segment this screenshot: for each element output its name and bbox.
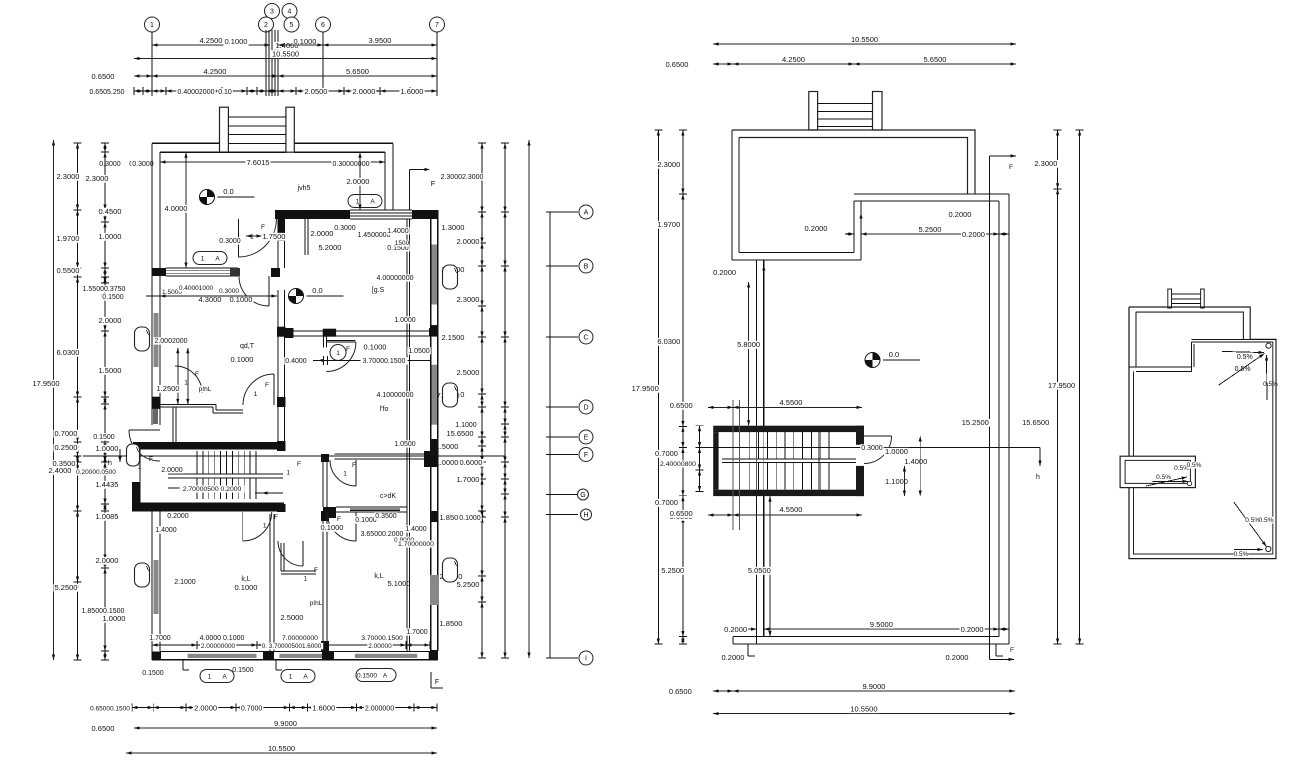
small wall bath: [172, 407, 174, 442]
skylight slope arrows: [1152, 480, 1188, 482]
svg-text:10.5500: 10.5500: [268, 744, 295, 753]
svg-text:2.3000: 2.3000: [86, 174, 109, 183]
svg-text:17.9500: 17.9500: [632, 384, 659, 393]
svg-text:7.6015: 7.6015: [247, 158, 270, 167]
svg-text:1.70000000: 1.70000000: [398, 541, 434, 548]
door k,L left room: [243, 512, 272, 541]
svg-text:1: 1: [343, 470, 347, 477]
room divider x=323 y 511-651: [322, 511, 324, 651]
stair block: [133, 442, 283, 450]
right dim chain 3 (17.9500): [528, 140, 530, 658]
svg-text:4.2500: 4.2500: [782, 55, 805, 64]
svg-text:10.5500: 10.5500: [850, 704, 877, 713]
kitchen wall y=507: [323, 507, 336, 518]
svg-text:0.6505.250: 0.6505.250: [89, 89, 124, 96]
bottom wall: [733, 643, 1009, 645]
svg-text:6.0300: 6.0300: [657, 337, 680, 346]
grid bubble 4: [282, 4, 297, 19]
stair box middle plan: [713, 426, 864, 432]
right dim chain 2: [504, 143, 506, 658]
svg-text:0.3000: 0.3000: [219, 288, 239, 295]
outer walls middle plan: [732, 130, 975, 194]
middle bottom dim 10.5500: [713, 713, 1015, 715]
svg-text:6.0300: 6.0300: [57, 348, 80, 357]
svg-text:5.8000: 5.8000: [737, 340, 760, 349]
svg-text:2.0500: 2.0500: [305, 87, 328, 96]
svg-text:0.1000: 0.1000: [225, 37, 248, 46]
svg-text:0.2500: 0.2500: [55, 443, 78, 452]
svg-text:1.2500: 1.2500: [157, 384, 180, 393]
svg-text:0.6500: 0.6500: [669, 687, 692, 696]
svg-text:0.2000: 0.2000: [961, 625, 984, 634]
svg-text:2.0000: 2.0000: [347, 177, 370, 186]
svg-text:2.3000: 2.3000: [1034, 159, 1057, 168]
svg-text:1.6000: 1.6000: [401, 87, 424, 96]
svg-text:3.70000.1500: 3.70000.1500: [363, 358, 406, 365]
section line F middle bottom: [989, 658, 1014, 660]
svg-text:0.1500: 0.1500: [142, 670, 164, 677]
svg-text:9.9000: 9.9000: [274, 719, 297, 728]
grid bubble 1: [145, 17, 160, 32]
svg-text:1.4000: 1.4000: [904, 457, 927, 466]
step wall left: [853, 201, 855, 253]
svg-text:5.2500: 5.2500: [661, 566, 684, 575]
svg-text:0.6000: 0.6000: [460, 458, 483, 467]
grid bubble A: [579, 205, 593, 219]
bottom dim row ticks: [132, 707, 437, 709]
svg-text:0.5%: 0.5%: [1259, 517, 1274, 524]
svg-text:A: A: [215, 256, 220, 263]
svg-text:0.4000: 0.4000: [285, 358, 307, 365]
svg-text:2.70000500 0.2000: 2.70000500 0.2000: [183, 486, 242, 493]
svg-text:F: F: [431, 179, 436, 188]
svg-text:1.7000: 1.7000: [406, 629, 428, 636]
svg-text:l'fo: l'fo: [380, 406, 389, 413]
circle k,L left: [264, 524, 266, 526]
svg-text:5.2500: 5.2500: [55, 583, 78, 592]
svg-text:2.1500: 2.1500: [442, 333, 465, 342]
svg-text:pIhL: pIhL: [199, 386, 212, 393]
wall y=331 right part: [285, 330, 431, 332]
svg-text:7.00000000: 7.00000000: [282, 635, 318, 642]
svg-text:1.55000.3750: 1.55000.3750: [83, 286, 126, 293]
svg-text:1.9700: 1.9700: [657, 220, 680, 229]
grid bubble I: [579, 651, 593, 665]
svg-text:F: F: [1009, 164, 1013, 171]
svg-text:0.1000: 0.1000: [321, 523, 344, 532]
middle left chains: [657, 130, 659, 644]
svg-text:9.9000: 9.9000: [862, 682, 885, 691]
roof slope arrow 3 (vertical right): [1266, 355, 1269, 400]
svg-text:jvh5: jvh5: [297, 185, 311, 192]
svg-text:G: G: [580, 492, 585, 499]
svg-text:F: F: [149, 456, 153, 463]
section line F middle top: [988, 156, 990, 660]
interior dim labels left plan: [163, 205, 188, 213]
left wall window hatch: [154, 313, 159, 367]
svg-text:B: B: [584, 264, 589, 271]
svg-text:1.0500: 1.0500: [394, 441, 416, 448]
bottom wall window strips: [188, 654, 257, 658]
pill fixtures right wall: [443, 265, 458, 289]
grid line 6: [322, 32, 324, 96]
svg-text:0.3000: 0.3000: [334, 225, 356, 232]
svg-text:0.30000000: 0.30000000: [333, 161, 370, 168]
svg-text:1: 1: [150, 22, 154, 29]
roof main top wall double: [1192, 338, 1277, 340]
dim lines inside qd,T: [177, 348, 179, 405]
svg-text:2.0000: 2.0000: [457, 237, 480, 246]
wall extension lines through stair: [732, 400, 734, 530]
svg-text:0.3000: 0.3000: [219, 238, 241, 245]
svg-text:0.6500: 0.6500: [92, 724, 115, 733]
svg-text:E: E: [584, 435, 589, 442]
svg-text:2.40000800: 2.40000800: [660, 461, 696, 468]
svg-text:c>dK: c>dK: [380, 493, 396, 500]
svg-text:10.5500: 10.5500: [272, 49, 299, 58]
svg-text:C: C: [583, 335, 588, 342]
grid bubble 7: [430, 17, 445, 32]
svg-text:pIhL: pIhL: [310, 600, 323, 607]
svg-text:2.3000: 2.3000: [457, 295, 480, 304]
svg-text:5.6500: 5.6500: [924, 55, 947, 64]
stair door middle: [864, 436, 892, 464]
ladder right plan: [1168, 289, 1172, 308]
circle 1 hall door: [251, 235, 253, 237]
grid bubble 2: [259, 17, 274, 32]
circle toilet: [304, 577, 306, 579]
grid bubble C: [579, 330, 593, 344]
svg-text:1.0000: 1.0000: [394, 317, 416, 324]
svg-text:3.700005001.6000: 3.700005001.6000: [269, 643, 322, 650]
inner mini chain stair heights: [699, 426, 701, 492]
svg-text:5.2500: 5.2500: [457, 580, 480, 589]
svg-text:2.5000: 2.5000: [457, 368, 480, 377]
left outer wall: [151, 143, 153, 425]
svg-text:1.1000: 1.1000: [455, 422, 477, 429]
top dim row 2 : 10.5500: [134, 58, 437, 60]
roof upper block bottom wall: [1129, 366, 1192, 368]
circle k,L right: [327, 527, 329, 529]
svg-text:F: F: [274, 514, 278, 521]
svg-text:F: F: [195, 371, 199, 378]
door qd,T top: [239, 276, 269, 306]
grid line 7: [436, 32, 438, 96]
g.S door leaf: [304, 219, 306, 255]
svg-text:4.0000: 4.0000: [165, 204, 188, 213]
svg-text:2.0000: 2.0000: [311, 229, 334, 238]
svg-text:0.0: 0.0: [889, 350, 899, 359]
svg-text:F: F: [265, 382, 269, 389]
svg-text:F: F: [584, 452, 588, 459]
svg-text:5.0500: 5.0500: [748, 566, 771, 575]
grid bubble B: [579, 259, 593, 273]
top wall inner line: [160, 151, 286, 153]
svg-text:0.5500: 0.5500: [57, 266, 80, 275]
svg-text:0.7000: 0.7000: [655, 498, 678, 507]
svg-text:0.6500: 0.6500: [670, 401, 693, 410]
roof slope arrow 2 (diagonal): [1219, 354, 1265, 386]
svg-text:2.5000: 2.5000: [281, 613, 304, 622]
svg-text:0.3000: 0.3000: [99, 161, 121, 168]
svg-text:H: H: [583, 512, 588, 519]
kitchen wall y=454 right: [335, 453, 431, 455]
svg-text:15.6500: 15.6500: [1022, 418, 1049, 427]
left wall lower: [756, 260, 758, 426]
middle plan dim labels: [947, 211, 972, 219]
svg-text:0.3500: 0.3500: [375, 513, 397, 520]
circle stair hall door: [287, 471, 289, 473]
svg-text:1.7000: 1.7000: [457, 475, 480, 484]
svg-text:0.3000: 0.3000: [132, 161, 154, 168]
svg-text:4.2500: 4.2500: [200, 36, 223, 45]
svg-text:2.0002000: 2.0002000: [154, 338, 187, 345]
circle 1 l-fo: [330, 345, 346, 361]
grid bubble 5: [284, 17, 299, 32]
door qd,T bottom (hall side): [243, 374, 274, 405]
right wall: [1008, 194, 1010, 644]
svg-text:0.2000: 0.2000: [946, 653, 969, 662]
svg-text:1.0000: 1.0000: [96, 444, 119, 453]
l-fo door arc: [326, 342, 356, 372]
svg-text:0.2000: 0.2000: [167, 513, 189, 520]
svg-text:2: 2: [264, 22, 268, 29]
svg-text:3: 3: [270, 9, 274, 16]
svg-text:A: A: [303, 674, 308, 681]
right upper wall: [384, 152, 386, 210]
svg-text:0.10: 0.10: [218, 89, 232, 96]
svg-text:0.1500: 0.1500: [93, 434, 115, 441]
svg-text:k,L: k,L: [241, 576, 250, 583]
stair labels: [160, 466, 184, 473]
svg-text:F: F: [297, 461, 301, 468]
central vertical wall x=278: [278, 219, 286, 241]
svg-text:0.5%: 0.5%: [1237, 354, 1253, 361]
svg-text:5.6500: 5.6500: [346, 67, 369, 76]
svg-text:1: 1: [336, 350, 340, 357]
svg-text:0.1000: 0.1000: [459, 515, 481, 522]
svg-text:5.2000: 5.2000: [319, 243, 342, 252]
l-fo door leaf: [326, 339, 355, 341]
svg-text:2.3000: 2.3000: [657, 160, 680, 169]
toilet plhL walls: [280, 543, 282, 571]
svg-text:1.0500: 1.0500: [408, 348, 430, 355]
svg-text:2.0000: 2.0000: [194, 704, 217, 713]
svg-text:2.0000: 2.0000: [99, 316, 122, 325]
svg-text:2.0000: 2.0000: [353, 87, 376, 96]
svg-text:15.2500: 15.2500: [962, 418, 989, 427]
roof notch vertical: [1191, 342, 1193, 372]
svg-text:h: h: [108, 460, 112, 467]
svg-text:1.5000: 1.5000: [99, 366, 122, 375]
5.0500 vertical dim: [769, 496, 771, 636]
svg-text:3.9500: 3.9500: [369, 36, 392, 45]
svg-text:F: F: [261, 224, 265, 231]
svg-text:1.8500: 1.8500: [440, 619, 463, 628]
svg-text:0.2000: 0.2000: [724, 625, 747, 634]
roof outline inner upper-left block: [1136, 312, 1244, 339]
svg-text:0.40002000: 0.40002000: [178, 89, 215, 96]
door + frame at qd,T top: [271, 268, 280, 277]
svg-text:4.5500: 4.5500: [780, 398, 803, 407]
svg-text:[g.S: [g.S: [372, 287, 385, 294]
pill fixtures left wall: [135, 327, 150, 351]
wide ext top wall: [854, 193, 1009, 195]
svg-text:F: F: [337, 516, 341, 523]
top dim 10.5500: [713, 43, 1016, 45]
grid bubble H: [581, 509, 592, 520]
svg-text:2.0000: 2.0000: [96, 556, 119, 565]
hall entry door: [238, 219, 276, 257]
wall x=272 y 511-651: [269, 514, 271, 651]
stair treads: [196, 451, 198, 474]
svg-text:1: 1: [208, 674, 212, 681]
svg-text:7: 7: [435, 22, 439, 29]
svg-text:0.6500: 0.6500: [670, 509, 693, 518]
stadium 1 A left: [193, 252, 227, 265]
svg-text:I: I: [585, 656, 587, 663]
kitchen wall x=323 top: [322, 462, 324, 507]
svg-text:0.2000: 0.2000: [805, 224, 828, 233]
roof slope arrow 1 (top horiz): [1222, 351, 1264, 352]
svg-text:5: 5: [290, 22, 294, 29]
svg-text:1500: 1500: [395, 240, 410, 247]
right dim chain 1: [481, 143, 483, 658]
svg-text:1: 1: [254, 391, 258, 398]
roof drain circle top right: [1266, 343, 1271, 348]
svg-text:0.65000.1500: 0.65000.1500: [90, 706, 130, 713]
bottom dim row 10.5500: [126, 752, 437, 754]
svg-text:0.1000: 0.1000: [231, 355, 254, 364]
svg-text:15.6500: 15.6500: [446, 429, 473, 438]
svg-text:1: 1: [356, 199, 360, 206]
svg-text:0.6500: 0.6500: [666, 60, 689, 69]
svg-text:1.0000: 1.0000: [99, 232, 122, 241]
svg-text:0.20000.0500: 0.20000.0500: [76, 469, 116, 476]
grid line 1: [151, 32, 153, 96]
svg-text:1: 1: [263, 522, 267, 529]
svg-text:k,L: k,L: [374, 573, 383, 580]
svg-text:0.0: 0.0: [312, 286, 322, 295]
svg-text:0.5%: 0.5%: [1235, 366, 1251, 373]
section line h middle: [700, 447, 1040, 449]
grid bubble D: [579, 400, 593, 414]
svg-text:0.1500: 0.1500: [357, 673, 377, 680]
wide part right wall: [430, 210, 432, 660]
svg-text:0.7000: 0.7000: [241, 706, 263, 713]
svg-text:1.4500000: 1.4500000: [357, 232, 390, 239]
svg-text:1: 1: [201, 256, 205, 263]
door k,L right room: [327, 512, 356, 541]
svg-text:3.70000.1500: 3.70000.1500: [361, 635, 403, 642]
svg-text:1.9700: 1.9700: [57, 234, 80, 243]
svg-text:F: F: [435, 679, 439, 686]
grid bubble F: [579, 448, 593, 462]
svg-text:1.6000: 1.6000: [312, 704, 335, 713]
grid lines 2-5 cluster: [265, 30, 267, 96]
circle balcony: [139, 466, 141, 468]
interior wall line x=407: [406, 219, 408, 651]
svg-text:17.9500: 17.9500: [1048, 381, 1075, 390]
svg-text:0.5%: 0.5%: [1187, 462, 1202, 469]
svg-text:F: F: [352, 462, 356, 469]
stair treads middle: [749, 432, 751, 459]
svg-text:1.3000: 1.3000: [442, 223, 465, 232]
svg-text:5.1000: 5.1000: [388, 579, 411, 588]
svg-text:F: F: [314, 567, 318, 574]
bottom interior dim row y=639: [148, 634, 172, 641]
svg-text:4.2500: 4.2500: [204, 67, 227, 76]
svg-text:0.2000: 0.2000: [962, 230, 985, 239]
svg-text:0.2000: 0.2000: [722, 653, 745, 662]
svg-text:4.00000000: 4.00000000: [377, 275, 414, 282]
svg-text:F: F: [1010, 647, 1014, 654]
grid bubble 6: [316, 17, 331, 32]
qd,T bottom wall y=405: [159, 403, 216, 405]
svg-text:2.30002.3000: 2.30002.3000: [441, 174, 484, 181]
svg-text:1.4000: 1.4000: [405, 526, 427, 533]
left dim chain 2: [77, 143, 79, 660]
middle stair dims: [708, 406, 733, 408]
dim line 4.0000 jvh5: [185, 152, 187, 268]
svg-text:2.0000: 2.0000: [161, 467, 183, 474]
left balcony door: [129, 430, 160, 461]
svg-text:10.5500: 10.5500: [851, 35, 878, 44]
svg-text:17.9500: 17.9500: [32, 379, 59, 388]
svg-text:0.5%: 0.5%: [1234, 551, 1249, 558]
svg-text:1.7000: 1.7000: [149, 635, 171, 642]
middle bottom dims: [733, 628, 757, 630]
grid bubble 3: [265, 4, 280, 19]
bottom wall black squares: [152, 652, 161, 660]
wall y=270 left part: [152, 268, 166, 276]
svg-text:1: 1: [138, 464, 142, 471]
bullseye middle: [865, 353, 880, 368]
svg-text:2.000000: 2.000000: [365, 706, 394, 713]
svg-text:1: 1: [184, 379, 188, 386]
section offset marks below wall: [182, 660, 184, 670]
svg-text:6: 6: [321, 22, 325, 29]
l-fo door post: [322, 337, 324, 348]
svg-text:0.1500: 0.1500: [102, 294, 124, 301]
svg-text:A: A: [370, 199, 375, 206]
svg-text:0.1000: 0.1000: [235, 583, 258, 592]
left wall black squares: [152, 397, 160, 409]
stadium 1 A verandah: [348, 195, 382, 208]
dim 7.6015: [160, 161, 385, 163]
door bath pIhL: [175, 366, 202, 393]
svg-text:2.4000: 2.4000: [49, 466, 72, 475]
svg-text:0.0: 0.0: [223, 187, 233, 196]
bullseye levels: [200, 190, 215, 205]
circle bath: [185, 381, 187, 383]
svg-text:0.4500: 0.4500: [99, 207, 122, 216]
svg-text:0.7000: 0.7000: [655, 449, 678, 458]
svg-text:5.2500: 5.2500: [919, 225, 942, 234]
svg-text:1: 1: [286, 470, 290, 477]
grid leader line to letters: [549, 212, 551, 658]
svg-text:1.4000: 1.4000: [155, 527, 177, 534]
section line h (left plan): [83, 455, 505, 457]
svg-text:0.7000: 0.7000: [55, 429, 78, 438]
svg-text:qd,T: qd,T: [240, 343, 255, 350]
section line F top right: [409, 170, 411, 211]
svg-text:2.00000: 2.00000: [368, 643, 392, 650]
svg-text:1: 1: [289, 674, 293, 681]
svg-text:h: h: [1036, 474, 1040, 481]
svg-text:2.3000: 2.3000: [57, 172, 80, 181]
bottom wall: [152, 659, 438, 661]
